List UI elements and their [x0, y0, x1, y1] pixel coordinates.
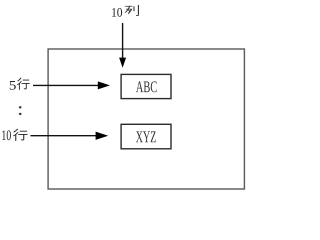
outer table box — [48, 49, 244, 189]
arrow right from 10行 — [31, 135, 98, 137]
label XYZ — [136, 131, 156, 142]
label 10行 (row 10) — [2, 130, 11, 140]
vertical ellipsis colon — [19, 106, 22, 108]
label ABC — [136, 81, 157, 92]
arrow right from 5行 — [33, 84, 99, 86]
label 5行 (row 5) — [10, 81, 16, 90]
cell box ABC — [121, 74, 171, 98]
label 10列 (10 columns) — [112, 8, 122, 17]
arrow down from 10列 — [122, 23, 124, 59]
cell box XYZ — [121, 124, 171, 149]
